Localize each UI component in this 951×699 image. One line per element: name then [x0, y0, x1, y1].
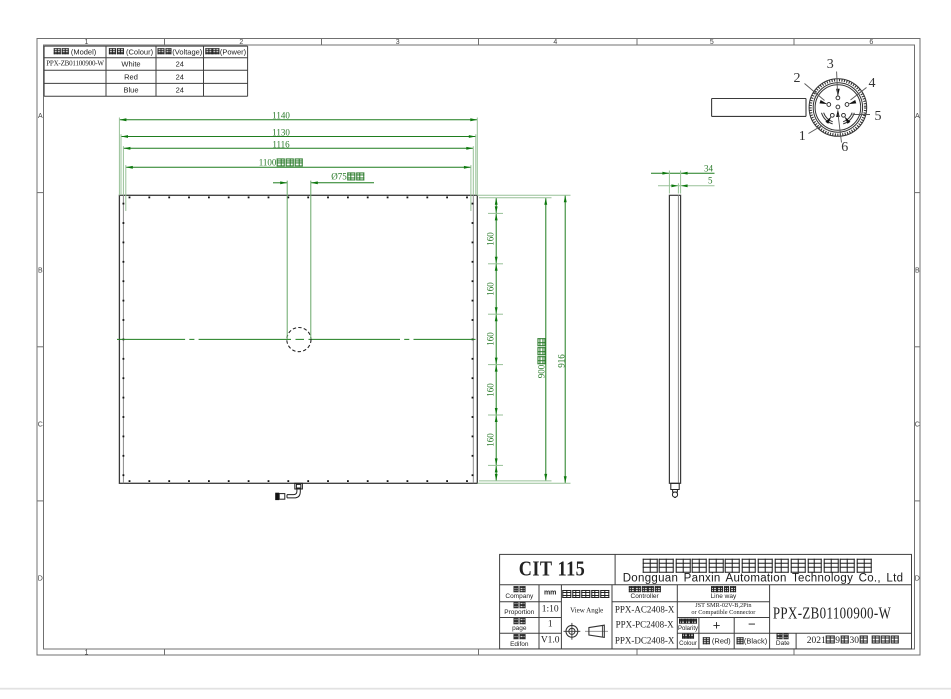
third angle projection symbol	[564, 623, 609, 640]
svg-text:1: 1	[85, 650, 89, 657]
spec table row white	[46, 60, 104, 67]
dimension 34	[651, 172, 715, 175]
spec table row blue	[123, 86, 138, 94]
green centerline	[117, 338, 480, 340]
company chinese	[642, 558, 873, 575]
svg-text:A: A	[38, 113, 43, 120]
page bottom separator	[0, 688, 951, 690]
panel inner bezel lines	[123, 195, 473, 483]
controller cell	[628, 586, 660, 594]
company english	[623, 573, 904, 585]
svg-text:A: A	[915, 113, 920, 120]
dim text 1140	[272, 112, 290, 121]
spec table header row	[54, 48, 97, 56]
dimension 1130	[121, 135, 476, 138]
dimension 1116	[123, 147, 473, 150]
cell proportion	[513, 602, 526, 610]
cell edition	[513, 634, 526, 642]
svg-text:D: D	[38, 576, 43, 583]
dim text dia75	[331, 172, 364, 181]
dimension 1140	[119, 118, 477, 121]
panel outline main view	[119, 195, 477, 483]
sheet inner border	[44, 45, 915, 649]
panel cable elbow	[287, 489, 300, 498]
panel cable plug	[275, 493, 285, 500]
line way cell	[710, 586, 736, 594]
side view face line	[677, 195, 679, 483]
cell company	[513, 586, 526, 594]
spec table grid	[44, 46, 248, 96]
svg-text:4: 4	[553, 39, 557, 46]
svg-text:5: 5	[710, 39, 714, 46]
cell page	[513, 618, 526, 626]
colour row	[682, 634, 694, 641]
connector pin leader lines	[805, 72, 871, 143]
side view extension lines	[669, 171, 680, 194]
dim text 916	[557, 354, 566, 368]
connector cable body	[712, 99, 806, 117]
svg-text:C: C	[915, 422, 920, 429]
dim text 1100 luminous	[259, 158, 304, 167]
title CIT 115	[518, 559, 584, 581]
extension lines right	[477, 195, 570, 483]
panel cable gland	[295, 483, 303, 489]
center hole circle	[287, 328, 311, 352]
dia75 extension lines to circle	[287, 181, 311, 339]
side view bottom connector	[671, 483, 679, 497]
polarity row	[679, 618, 697, 625]
connector pins	[820, 89, 857, 124]
connector knurled ring	[811, 80, 866, 135]
dim text 5	[708, 177, 713, 186]
dim text 1116	[272, 140, 289, 149]
svg-text:3: 3	[396, 39, 400, 46]
connector keyway arcs	[822, 113, 855, 124]
view angle cell	[562, 590, 609, 600]
svg-text:B: B	[915, 267, 920, 274]
dim text 900 luminous	[537, 338, 546, 378]
spec table row red	[124, 73, 138, 81]
dimension 916	[564, 195, 567, 483]
dimension 900 luminous height	[544, 198, 547, 481]
dimension chain 160 pitch	[488, 198, 503, 481]
dimension 5	[658, 184, 715, 187]
svg-text:B: B	[38, 267, 43, 274]
mounting hole dots	[123, 197, 474, 483]
chain dim texts 160	[487, 232, 496, 246]
svg-text:2: 2	[239, 39, 243, 46]
dim text 1130	[272, 128, 290, 137]
svg-text:6: 6	[869, 39, 873, 46]
connector outer rings	[809, 79, 867, 137]
connector pin labels	[799, 130, 806, 144]
side view outline	[669, 195, 680, 483]
dimension dia75 center circle	[273, 181, 374, 184]
dim text 34	[704, 164, 713, 173]
extension lines top	[119, 118, 477, 212]
svg-text:D: D	[915, 576, 920, 583]
svg-text:1: 1	[85, 39, 89, 46]
dimension 1100 luminous width	[126, 166, 471, 169]
title block grid	[500, 554, 912, 649]
part number	[773, 605, 891, 622]
date cell	[776, 633, 789, 641]
svg-text:C: C	[38, 422, 43, 429]
